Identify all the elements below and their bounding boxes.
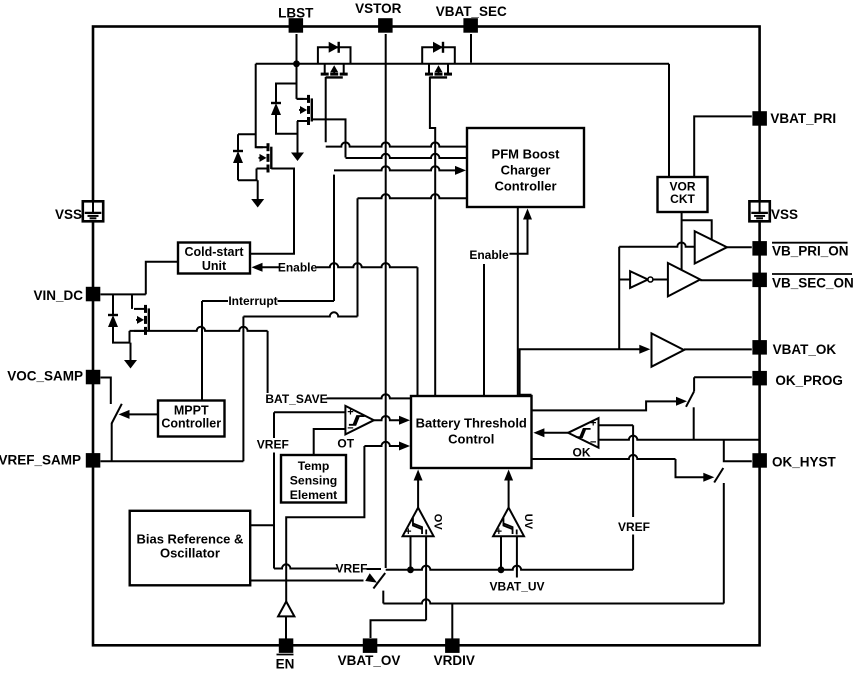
wire VRDIV pin riser: [451, 604, 453, 639]
wire BTC to OK_PROG switch: [532, 397, 688, 411]
wire BTC to OK_HYST switch: [532, 455, 715, 482]
svg-text:VREF_SAMP: VREF_SAMP: [0, 453, 81, 468]
wire VSTOR column: [385, 34, 387, 568]
pin VRDIV: [434, 638, 475, 668]
pin VB_PRI_ON (active low): [752, 241, 848, 258]
pin VBAT_OK: [752, 340, 836, 357]
wire OK output arrow to BTC: [533, 428, 568, 437]
svg-text:VBAT_OK: VBAT_OK: [773, 342, 837, 357]
node LBST junction: [293, 60, 300, 67]
block U2 PFM Boost Charger Controller: [467, 128, 584, 207]
node Enable to Cold-start Unit: [252, 261, 418, 397]
pin VB_SEC_ON (active low): [752, 273, 853, 291]
svg-text:LBST: LBST: [278, 5, 314, 20]
wire VREF_SAMP line: [101, 460, 244, 462]
wire inverter to buffer B2: [653, 279, 668, 281]
wire M3 source down: [257, 169, 258, 200]
pin OK_HYST: [752, 453, 836, 469]
wire VIN_DC to node: [101, 293, 146, 295]
svg-text:Unit: Unit: [202, 259, 227, 273]
pin VOC_SAMP: [7, 368, 100, 384]
pin LBST: [278, 5, 314, 32]
comparator OT: [337, 406, 374, 451]
wire line3 Interrupt to PFM with arrow: [334, 166, 466, 301]
svg-text:VREF: VREF: [257, 438, 289, 452]
svg-text:+: +: [347, 407, 353, 419]
pin VIN_DC: [33, 287, 100, 303]
node junction OV+: [407, 566, 414, 573]
svg-text:VB_SEC_ON: VB_SEC_ON: [772, 275, 853, 290]
wire Cold-start left to VIN_DC node: [146, 262, 178, 295]
svg-text:VBAT_SEC: VBAT_SEC: [436, 4, 507, 19]
switch S1 VOC_SAMP sampler: [101, 378, 159, 462]
pin VSTOR: [355, 1, 402, 33]
svg-text:VREF: VREF: [335, 562, 367, 576]
block U6 Battery Threshold Control: [411, 396, 532, 468]
svg-text:Sensing: Sensing: [290, 474, 337, 488]
svg-text:VSTOR: VSTOR: [355, 1, 402, 16]
wire VOR CKT to B1 and B2: [682, 212, 712, 271]
wire inverter input: [619, 279, 630, 281]
node Enable to PFM: [469, 209, 532, 397]
wire line2 to PFM: [346, 154, 468, 158]
transistor M3 cold-start NMOS: [257, 143, 272, 172]
node VREF left: [257, 412, 289, 568]
pin VSS right (ground symbol): [749, 201, 798, 222]
svg-text:CKT: CKT: [670, 192, 695, 206]
svg-text:VIN_DC: VIN_DC: [33, 288, 83, 303]
svg-text:VSS: VSS: [55, 207, 82, 222]
wire UV output arrow to BTC: [504, 470, 513, 508]
wire UV- input: [516, 536, 518, 577]
ground below M3: [251, 199, 264, 208]
diode D4 (M4 body diode): [108, 294, 131, 342]
node junction UV+: [498, 566, 505, 573]
svg-text:BAT_SAVE: BAT_SAVE: [265, 392, 327, 406]
wire M4 source line y330: [130, 327, 268, 331]
pin OK_PROG: [752, 371, 843, 388]
wire line1 from M1a gate to PFM: [326, 77, 467, 147]
wire VREF_SAMP riser to line4: [243, 198, 357, 461]
svg-text:VOC_SAMP: VOC_SAMP: [7, 368, 83, 383]
wire UV+ input: [500, 536, 502, 570]
wire VREF rail to comparators: [386, 566, 633, 570]
wire Bias to VREF node: [251, 524, 275, 526]
svg-text:Charger: Charger: [501, 163, 551, 178]
pin EN (active low): [276, 638, 295, 671]
svg-text:VRDIV: VRDIV: [434, 653, 475, 668]
comparator UV: [493, 508, 534, 538]
wire LBST column: [297, 34, 304, 99]
svg-text:Control: Control: [448, 432, 494, 447]
svg-text:Controller: Controller: [161, 417, 221, 431]
wire M4 drain up: [131, 294, 133, 309]
wire VRDIV rail y603: [383, 599, 724, 603]
diode D2 (M2 body diode): [271, 84, 298, 134]
svg-text:VB_PRI_ON: VB_PRI_ON: [772, 243, 849, 258]
wire VBAT_OK net riser: [618, 247, 620, 350]
svg-text:Battery Threshold: Battery Threshold: [416, 416, 527, 431]
node VREF right: [618, 425, 650, 570]
svg-text:Cold-start: Cold-start: [184, 245, 244, 259]
wire EN pin to buffer: [285, 616, 287, 638]
svg-text:Oscillator: Oscillator: [160, 546, 220, 561]
wire switch to OK_PROG pin: [694, 376, 752, 378]
wire B2 output to pin: [700, 279, 752, 281]
svg-text:OV: OV: [431, 514, 443, 531]
block U1 Cold-start Unit: [178, 243, 250, 274]
wire VBAT_SEC stub to bus: [470, 34, 472, 63]
wire line4 to PFM: [358, 194, 468, 198]
wire B1 output to pin: [727, 246, 752, 248]
wire OT output arrow to BTC: [374, 416, 410, 425]
buffer B5 EN input: [278, 602, 294, 617]
wire Bias reference output arrow: [251, 573, 380, 586]
pin VREF_SAMP: [0, 453, 100, 468]
block U7 Bias Reference & Oscillator: [130, 511, 251, 586]
svg-text:Temp: Temp: [298, 459, 330, 473]
wire M2 gate to line2: [312, 119, 346, 157]
wire bus to VOR CKT: [668, 64, 670, 177]
wire buffer B1 input: [619, 243, 695, 247]
pin VBAT_SEC: [436, 4, 507, 33]
block U5 Temp Sensing Element: [281, 455, 346, 503]
svg-text:UV: UV: [522, 514, 534, 530]
wire M3 gate to Cold-start Unit: [251, 169, 295, 254]
pin VSS left (ground symbol): [55, 201, 103, 222]
node VBAT_UV: [489, 580, 544, 594]
svg-text:Controller: Controller: [494, 179, 556, 194]
outer IC boundary: [93, 27, 760, 646]
inverter B2a: [630, 271, 653, 288]
svg-text:+: +: [496, 526, 502, 538]
svg-text:PFM Boost: PFM Boost: [492, 147, 561, 162]
wire OV+ input: [410, 536, 412, 570]
wire EN buffer to BTC arrow: [286, 442, 410, 602]
transistor M4 VIN_DC NFET: [134, 305, 149, 335]
svg-text:Interrupt: Interrupt: [228, 294, 277, 308]
wire PFM to BTC: [517, 207, 519, 396]
transistor M1a PMOS with body diode D1a: [318, 42, 351, 78]
wire OV- input from VBAT_OV: [371, 536, 427, 638]
wire bus left end to M3 drain: [256, 64, 263, 147]
buffer B3 VBAT_OK: [652, 333, 685, 366]
switch S3 OK_PROG: [686, 377, 694, 440]
svg-text:MPPT: MPPT: [174, 404, 209, 418]
comparator OK: [568, 418, 598, 460]
svg-text:Enable: Enable: [469, 248, 509, 262]
wire M1b gate to Battery Threshold Control: [430, 77, 435, 397]
svg-text:VSS: VSS: [771, 207, 798, 222]
svg-text:−: −: [590, 437, 596, 449]
wire M4 source to ground: [130, 331, 131, 360]
switch S2 VREF select: [373, 573, 385, 604]
ground below M2: [291, 153, 304, 162]
wire OK+ to VREF node: [599, 424, 634, 426]
buffer B2 VB_SEC_ON driver: [668, 263, 700, 296]
wire OT+ from VREF: [274, 411, 345, 413]
svg-text:OT: OT: [337, 437, 354, 451]
pin VBAT_PRI: [752, 111, 836, 126]
svg-text:OK: OK: [573, 446, 591, 460]
wire BTC to VBAT_OK buffer with arrow: [520, 345, 651, 395]
svg-text:VBAT_OV: VBAT_OV: [338, 653, 401, 668]
wire VBAT_PRI to VOR CKT: [694, 116, 752, 177]
ground below M4: [124, 360, 137, 369]
transistor M1b PMOS with body diode D1b: [422, 42, 455, 78]
svg-text:+: +: [590, 418, 596, 430]
wire VBAT_OK buffer to pin: [684, 348, 752, 350]
svg-text:OK_HYST: OK_HYST: [772, 455, 837, 470]
svg-text:VBAT_UV: VBAT_UV: [489, 580, 544, 594]
svg-text:VBAT_PRI: VBAT_PRI: [770, 111, 836, 126]
node BAT_SAVE: [265, 331, 411, 406]
wire OT- from Temp Sensing Element: [314, 429, 345, 455]
svg-text:VREF: VREF: [618, 520, 650, 534]
svg-text:+: +: [405, 526, 411, 538]
node VREF bottom: [274, 562, 381, 576]
svg-text:OK_PROG: OK_PROG: [775, 373, 843, 388]
buffer B1 VB_PRI_ON driver: [695, 231, 727, 263]
node Interrupt: [202, 294, 334, 401]
wire OV output arrow to BTC: [414, 470, 423, 508]
switch S4 OK_HYST: [714, 468, 724, 604]
wire M2 source down: [297, 121, 299, 153]
comparator OV: [403, 508, 444, 538]
transistor M2 cold-start NMOS: [297, 95, 312, 125]
block U4 MPPT Controller: [158, 401, 225, 437]
svg-text:EN: EN: [276, 657, 295, 672]
wire storage bus: [256, 63, 669, 65]
wire OK- / OK_HYST line: [599, 436, 760, 440]
svg-text:Bias Reference &: Bias Reference &: [136, 532, 243, 547]
svg-text:Enable: Enable: [278, 261, 318, 275]
svg-text:Element: Element: [290, 488, 337, 502]
pin VBAT_OV: [338, 638, 401, 668]
diode D3 (M3 body diode): [233, 134, 258, 180]
block U3 VOR CKT: [658, 177, 708, 212]
wire OK_HYST pin tap: [724, 440, 752, 462]
